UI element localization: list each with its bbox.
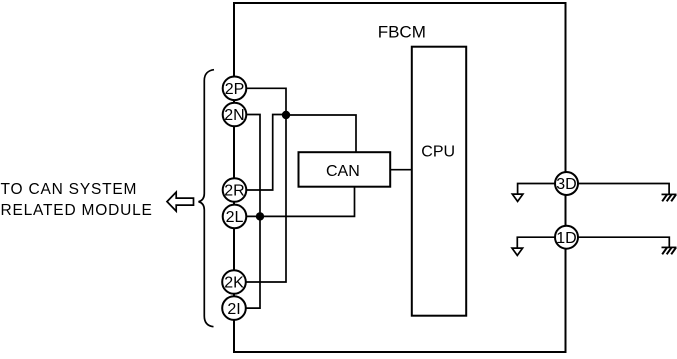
connector pin 2N bbox=[223, 103, 247, 127]
connector pin 2K bbox=[222, 270, 246, 294]
label FBCM bbox=[378, 23, 426, 42]
wire 2L to CAN bottom bbox=[246, 187, 355, 217]
connector pin 3D bbox=[555, 172, 578, 195]
svg-text:2N: 2N bbox=[224, 107, 244, 124]
arrow to CAN system related module bbox=[167, 192, 194, 211]
svg-text:2K: 2K bbox=[224, 275, 244, 292]
connector pin 1D bbox=[555, 226, 578, 249]
CAN block bbox=[299, 152, 391, 187]
chassis ground at 3D bbox=[662, 194, 677, 201]
svg-text:CAN: CAN bbox=[326, 163, 360, 180]
svg-text:RELATED MODULE: RELATED MODULE bbox=[1, 202, 153, 219]
wire 1D internal ground bbox=[517, 237, 555, 247]
CPU block bbox=[412, 47, 466, 316]
svg-text:TO CAN SYSTEM: TO CAN SYSTEM bbox=[1, 181, 138, 198]
connector pin 2P bbox=[223, 77, 247, 101]
wire CAN to CPU bbox=[390, 169, 412, 171]
connector pin 2I bbox=[222, 296, 246, 320]
svg-text:3D: 3D bbox=[556, 176, 576, 193]
chassis ground at 1D bbox=[662, 247, 677, 254]
label TO CAN SYSTEM RELATED MODULE bbox=[1, 181, 153, 219]
svg-text:1D: 1D bbox=[556, 230, 576, 247]
wire 3D internal ground bbox=[518, 184, 555, 194]
svg-text:2L: 2L bbox=[226, 209, 244, 226]
svg-text:2I: 2I bbox=[227, 301, 240, 318]
wire 3D chassis ground bbox=[578, 184, 669, 195]
junction node at 2L level bbox=[256, 212, 264, 220]
junction node at 2N level bbox=[282, 111, 290, 119]
wire junction to CAN top bbox=[286, 115, 356, 152]
wire 1D chassis ground bbox=[578, 237, 669, 247]
svg-text:CPU: CPU bbox=[421, 144, 455, 161]
ground triangle at 1D bbox=[512, 248, 523, 255]
svg-text:FBCM: FBCM bbox=[378, 23, 426, 42]
connector pin 2R bbox=[223, 178, 247, 202]
connector pin 2L bbox=[223, 205, 247, 229]
brace grouping connector pins bbox=[199, 70, 215, 327]
wire 2N to 2I vertical bus bbox=[246, 115, 260, 309]
ground triangle at 3D bbox=[512, 194, 523, 201]
wire 2R riser bbox=[246, 115, 286, 191]
svg-text:2P: 2P bbox=[225, 81, 245, 98]
svg-text:2R: 2R bbox=[224, 183, 244, 200]
wire 2P to 2K vertical bus bbox=[246, 88, 286, 282]
FBCM module box bbox=[234, 3, 566, 352]
